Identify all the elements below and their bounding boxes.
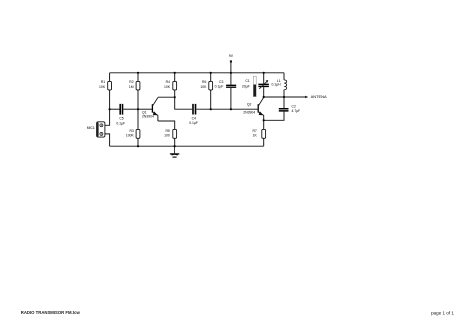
transistor Q2 <box>243 97 263 115</box>
node junction Q2 emitter C2 R7 <box>263 119 265 121</box>
wire top supply rail <box>110 72 284 74</box>
wire R2 bottom lead <box>137 90 139 109</box>
inductor L1 <box>271 79 286 90</box>
svg-text:0.1µH: 0.1µH <box>271 83 281 87</box>
wire MIC1 bottom terminal to ground rail <box>103 134 110 146</box>
wire R7 bottom lead <box>263 138 265 146</box>
node junction C3 signal <box>230 108 232 110</box>
node junction Q2 collector antenna <box>263 96 265 98</box>
svg-text:0.1µF: 0.1µF <box>215 85 224 89</box>
wire C5 to node B <box>123 108 138 110</box>
wire C2 bottom lead to emitter node <box>264 112 284 121</box>
svg-text:1M: 1M <box>129 85 134 89</box>
wire R4 top lead <box>174 73 176 82</box>
capacitor C5 <box>116 104 125 125</box>
svg-text:100: 100 <box>164 134 170 138</box>
wire C2 top lead <box>283 97 285 108</box>
wire 9V feed <box>230 62 232 73</box>
resistor R3 <box>126 129 140 138</box>
node junction Q1 collector R4 <box>174 96 176 98</box>
wire R6 top lead <box>210 73 212 82</box>
svg-text:10K: 10K <box>164 85 171 89</box>
wire Q1 emitter to R5 <box>158 121 175 129</box>
svg-text:C4: C4 <box>192 116 196 120</box>
wire C3 top lead <box>230 73 232 85</box>
microphone MIC1 <box>87 122 105 137</box>
svg-text:R5: R5 <box>165 129 169 133</box>
wire R3 bottom lead <box>137 138 139 146</box>
node junction C5-R2-R3-base <box>137 108 139 110</box>
svg-text:2N3904: 2N3904 <box>142 115 154 119</box>
C1 setting gauge bar <box>253 76 256 97</box>
svg-text:4.7µF: 4.7µF <box>292 109 301 113</box>
ground <box>170 146 179 157</box>
wire R2 top lead <box>137 73 139 82</box>
svg-text:page 1 of 1: page 1 of 1 <box>431 311 455 316</box>
node junction R6-C3 signal <box>210 108 212 110</box>
wire C1 bottom lead to antenna node <box>263 87 265 97</box>
svg-text:10K: 10K <box>99 85 106 89</box>
wire antenna line <box>264 96 307 98</box>
resistor R4 <box>164 80 177 90</box>
svg-text:C3: C3 <box>219 80 223 84</box>
svg-text:9V: 9V <box>229 54 234 58</box>
wire collector node down to C4 row <box>175 97 193 109</box>
capacitor C4 <box>189 104 198 125</box>
svg-text:RADIO TRANSMISOR FM.tcw: RADIO TRANSMISOR FM.tcw <box>21 310 81 315</box>
node junction 9V rail <box>230 72 232 74</box>
antenna arrow and label <box>305 95 327 99</box>
resistor R5 <box>164 129 176 138</box>
node junction R2 top rail <box>137 72 139 74</box>
svg-text:R1: R1 <box>101 80 105 84</box>
resistor R7 <box>252 129 265 138</box>
wire Q1 emitter lead <box>157 115 159 121</box>
svg-text:C5: C5 <box>119 117 123 121</box>
svg-text:R3: R3 <box>129 129 133 133</box>
node junction R5 ground rail <box>174 145 176 147</box>
wire C4 to Q2 base <box>196 108 257 110</box>
node junction R4 top rail <box>174 72 176 74</box>
wire L1 bottom lead <box>283 90 285 97</box>
svg-text:R4: R4 <box>166 80 170 84</box>
svg-text:Q2: Q2 <box>247 103 252 107</box>
svg-text:R2: R2 <box>129 80 133 84</box>
resistor R1 <box>99 80 111 90</box>
wire Q2 emitter lead to R7 <box>263 115 265 129</box>
9V supply terminal <box>229 54 234 62</box>
svg-text:ANTENA: ANTENA <box>311 95 328 99</box>
wire MIC1 top terminal to node A <box>103 109 110 125</box>
node junction R3 ground rail <box>137 145 139 147</box>
wire R5 bottom lead <box>174 138 176 146</box>
wire Q1 collector to R4 node <box>158 96 175 98</box>
svg-text:MIC1: MIC1 <box>87 126 95 130</box>
wire C1 top lead <box>263 73 265 84</box>
svg-text:R7: R7 <box>252 129 256 133</box>
wire L1 top lead from rail <box>283 73 285 80</box>
svg-text:100K: 100K <box>126 134 135 138</box>
svg-text:C1: C1 <box>245 79 249 83</box>
wire R3 top lead <box>137 109 139 129</box>
transistor Q1 <box>142 97 158 118</box>
wire R4 bottom lead <box>174 90 176 97</box>
wire R6 bottom lead <box>210 90 212 109</box>
wire node A to C5 <box>110 108 120 110</box>
node junction R1-C5-MIC <box>109 108 111 110</box>
svg-text:0.1µF: 0.1µF <box>189 121 198 125</box>
wire bottom ground rail <box>110 145 264 147</box>
resistor R6 <box>200 80 212 90</box>
capacitor C3 <box>215 80 237 89</box>
svg-text:10K: 10K <box>200 85 207 89</box>
wire R1 top lead <box>109 73 111 82</box>
capacitor C2 <box>279 105 300 113</box>
wire R1 bottom lead <box>109 90 111 109</box>
svg-text:1K: 1K <box>253 134 258 138</box>
node junction C1 top rail <box>263 72 265 74</box>
wire C3 bottom lead <box>230 88 232 109</box>
node junction L1-C2 antenna <box>283 96 285 98</box>
svg-text:20µF: 20µF <box>242 84 250 88</box>
capacitor C1 (variable) <box>242 79 269 89</box>
node junction R6 top rail <box>210 72 212 74</box>
wire Q1 base <box>138 108 152 110</box>
svg-text:2N3904: 2N3904 <box>243 111 255 115</box>
svg-text:0.1µF: 0.1µF <box>116 121 125 125</box>
resistor R2 <box>129 80 140 90</box>
svg-text:R6: R6 <box>202 80 206 84</box>
